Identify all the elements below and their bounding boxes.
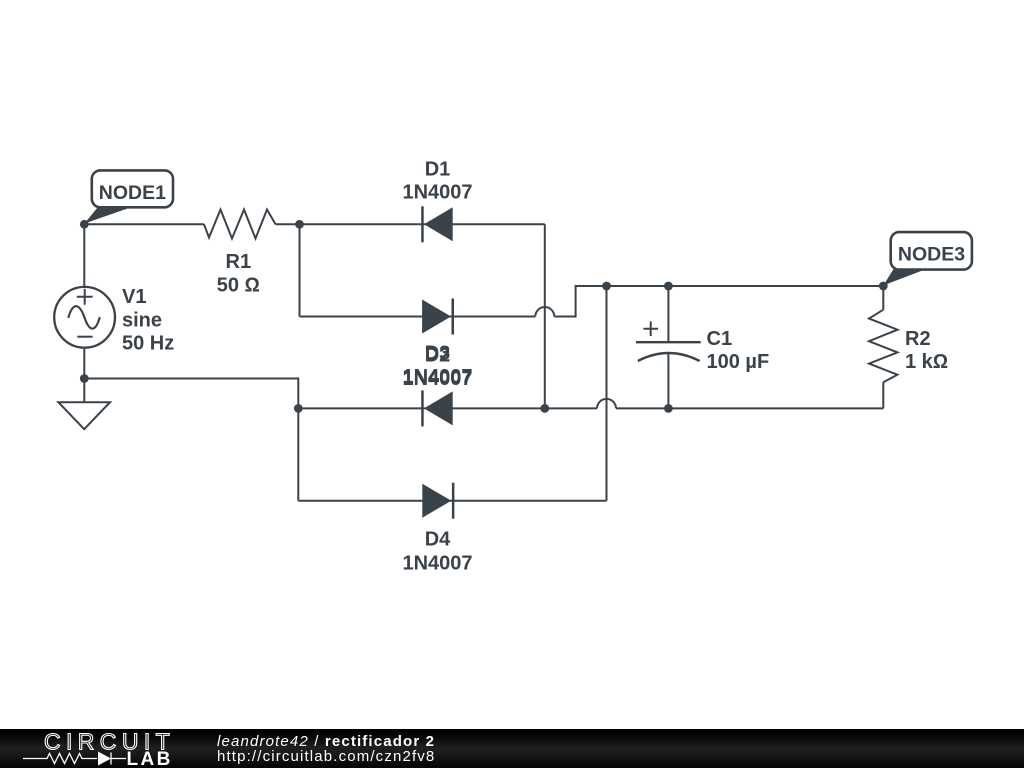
diode D1 (points left) bbox=[424, 207, 453, 241]
diode D3 (points left) bbox=[424, 391, 453, 425]
flag NODE1 pointer wedge bbox=[85, 208, 128, 224]
footer bar bbox=[0, 729, 1024, 768]
capacitor C1 top lead bbox=[667, 286, 669, 342]
svg-text:D3: D3 bbox=[425, 343, 451, 365]
CircuitLab logo bbox=[0, 729, 200, 768]
svg-text:50 Ω: 50 Ω bbox=[217, 274, 260, 296]
svg-text:sine: sine bbox=[122, 309, 162, 331]
capacitor C1 bottom lead bbox=[667, 354, 669, 409]
resistor R2 bottom lead bbox=[882, 382, 884, 408]
wire V1 bottom lead to dot bbox=[83, 349, 85, 379]
svg-text:C1: C1 bbox=[707, 328, 733, 350]
wire row1 left (NODE1 to R1) bbox=[84, 223, 204, 225]
wire row2 with hop over x544.8 bbox=[300, 316, 536, 318]
wire row1 right (R1 to corner) bbox=[276, 223, 545, 225]
svg-text:100 µF: 100 µF bbox=[707, 351, 770, 373]
wire vertical x298.3 (row3 to row4) bbox=[297, 408, 299, 500]
junction dot C1 bottom bbox=[664, 404, 673, 413]
svg-text:NODE3: NODE3 bbox=[898, 244, 965, 266]
junction dot NODE3 bbox=[879, 282, 888, 291]
wire V1 top lead bbox=[83, 224, 85, 286]
junction dot C1 top bbox=[664, 282, 673, 291]
V1 minus sign bbox=[77, 336, 92, 338]
diode D4 (points right) bbox=[422, 484, 451, 518]
junction dot top rail x606.5 bbox=[602, 282, 611, 291]
svg-text:1N4007: 1N4007 bbox=[402, 366, 472, 388]
wire dot to ground bbox=[83, 379, 85, 403]
svg-text:50 Hz: 50 Hz bbox=[122, 333, 174, 355]
wire row V1-bottom to row3 bbox=[84, 379, 298, 409]
wire row4 (D4) bbox=[298, 500, 606, 502]
resistor R2 zigzag bbox=[869, 310, 898, 383]
junction dot NODE1 bbox=[80, 220, 89, 229]
svg-text:1N4007: 1N4007 bbox=[402, 181, 472, 203]
V1 plus sign bbox=[77, 289, 93, 305]
junction dot row3 x544.8 bbox=[540, 404, 549, 413]
flag NODE3 pointer wedge bbox=[883, 269, 924, 286]
flag NODE3 box bbox=[891, 232, 972, 270]
svg-text:R2: R2 bbox=[905, 328, 931, 350]
svg-text:D4: D4 bbox=[425, 529, 451, 551]
junction dot below V1 bbox=[80, 374, 89, 383]
ground symbol bbox=[58, 402, 110, 429]
V1 sine wave bbox=[68, 306, 100, 328]
svg-text:R1: R1 bbox=[226, 251, 252, 273]
svg-text:1N4007: 1N4007 bbox=[402, 552, 472, 574]
diode D2 (points right) bbox=[422, 300, 451, 334]
svg-text:NODE1: NODE1 bbox=[99, 182, 166, 204]
wire vertical x299.5 (R1 junction down to row2) bbox=[299, 224, 301, 316]
svg-text:LAB: LAB bbox=[127, 749, 173, 768]
wire vertical x544.8 (D1 out down to row3) bbox=[544, 224, 546, 408]
voltage source V1 circle bbox=[54, 287, 115, 348]
svg-text:V1: V1 bbox=[122, 286, 146, 308]
wire row3 with hop over x606.5 bbox=[298, 407, 597, 409]
junction dot after R1 bbox=[295, 220, 304, 229]
junction dot row3 left bbox=[294, 404, 303, 413]
resistor R1 bbox=[204, 210, 276, 239]
svg-text:1 kΩ: 1 kΩ bbox=[905, 351, 948, 373]
C1 plus sign bbox=[643, 321, 658, 336]
flag NODE1 box bbox=[92, 170, 173, 207]
wire vertical x606.5 (row4 up to top rail) bbox=[606, 286, 608, 501]
svg-text:D1: D1 bbox=[425, 158, 451, 180]
capacitor C1 top plate bbox=[636, 341, 701, 343]
footer line1: user / title bbox=[217, 734, 435, 766]
resistor R2 top lead bbox=[882, 286, 884, 310]
capacitor C1 bottom plate arc bbox=[638, 353, 700, 361]
